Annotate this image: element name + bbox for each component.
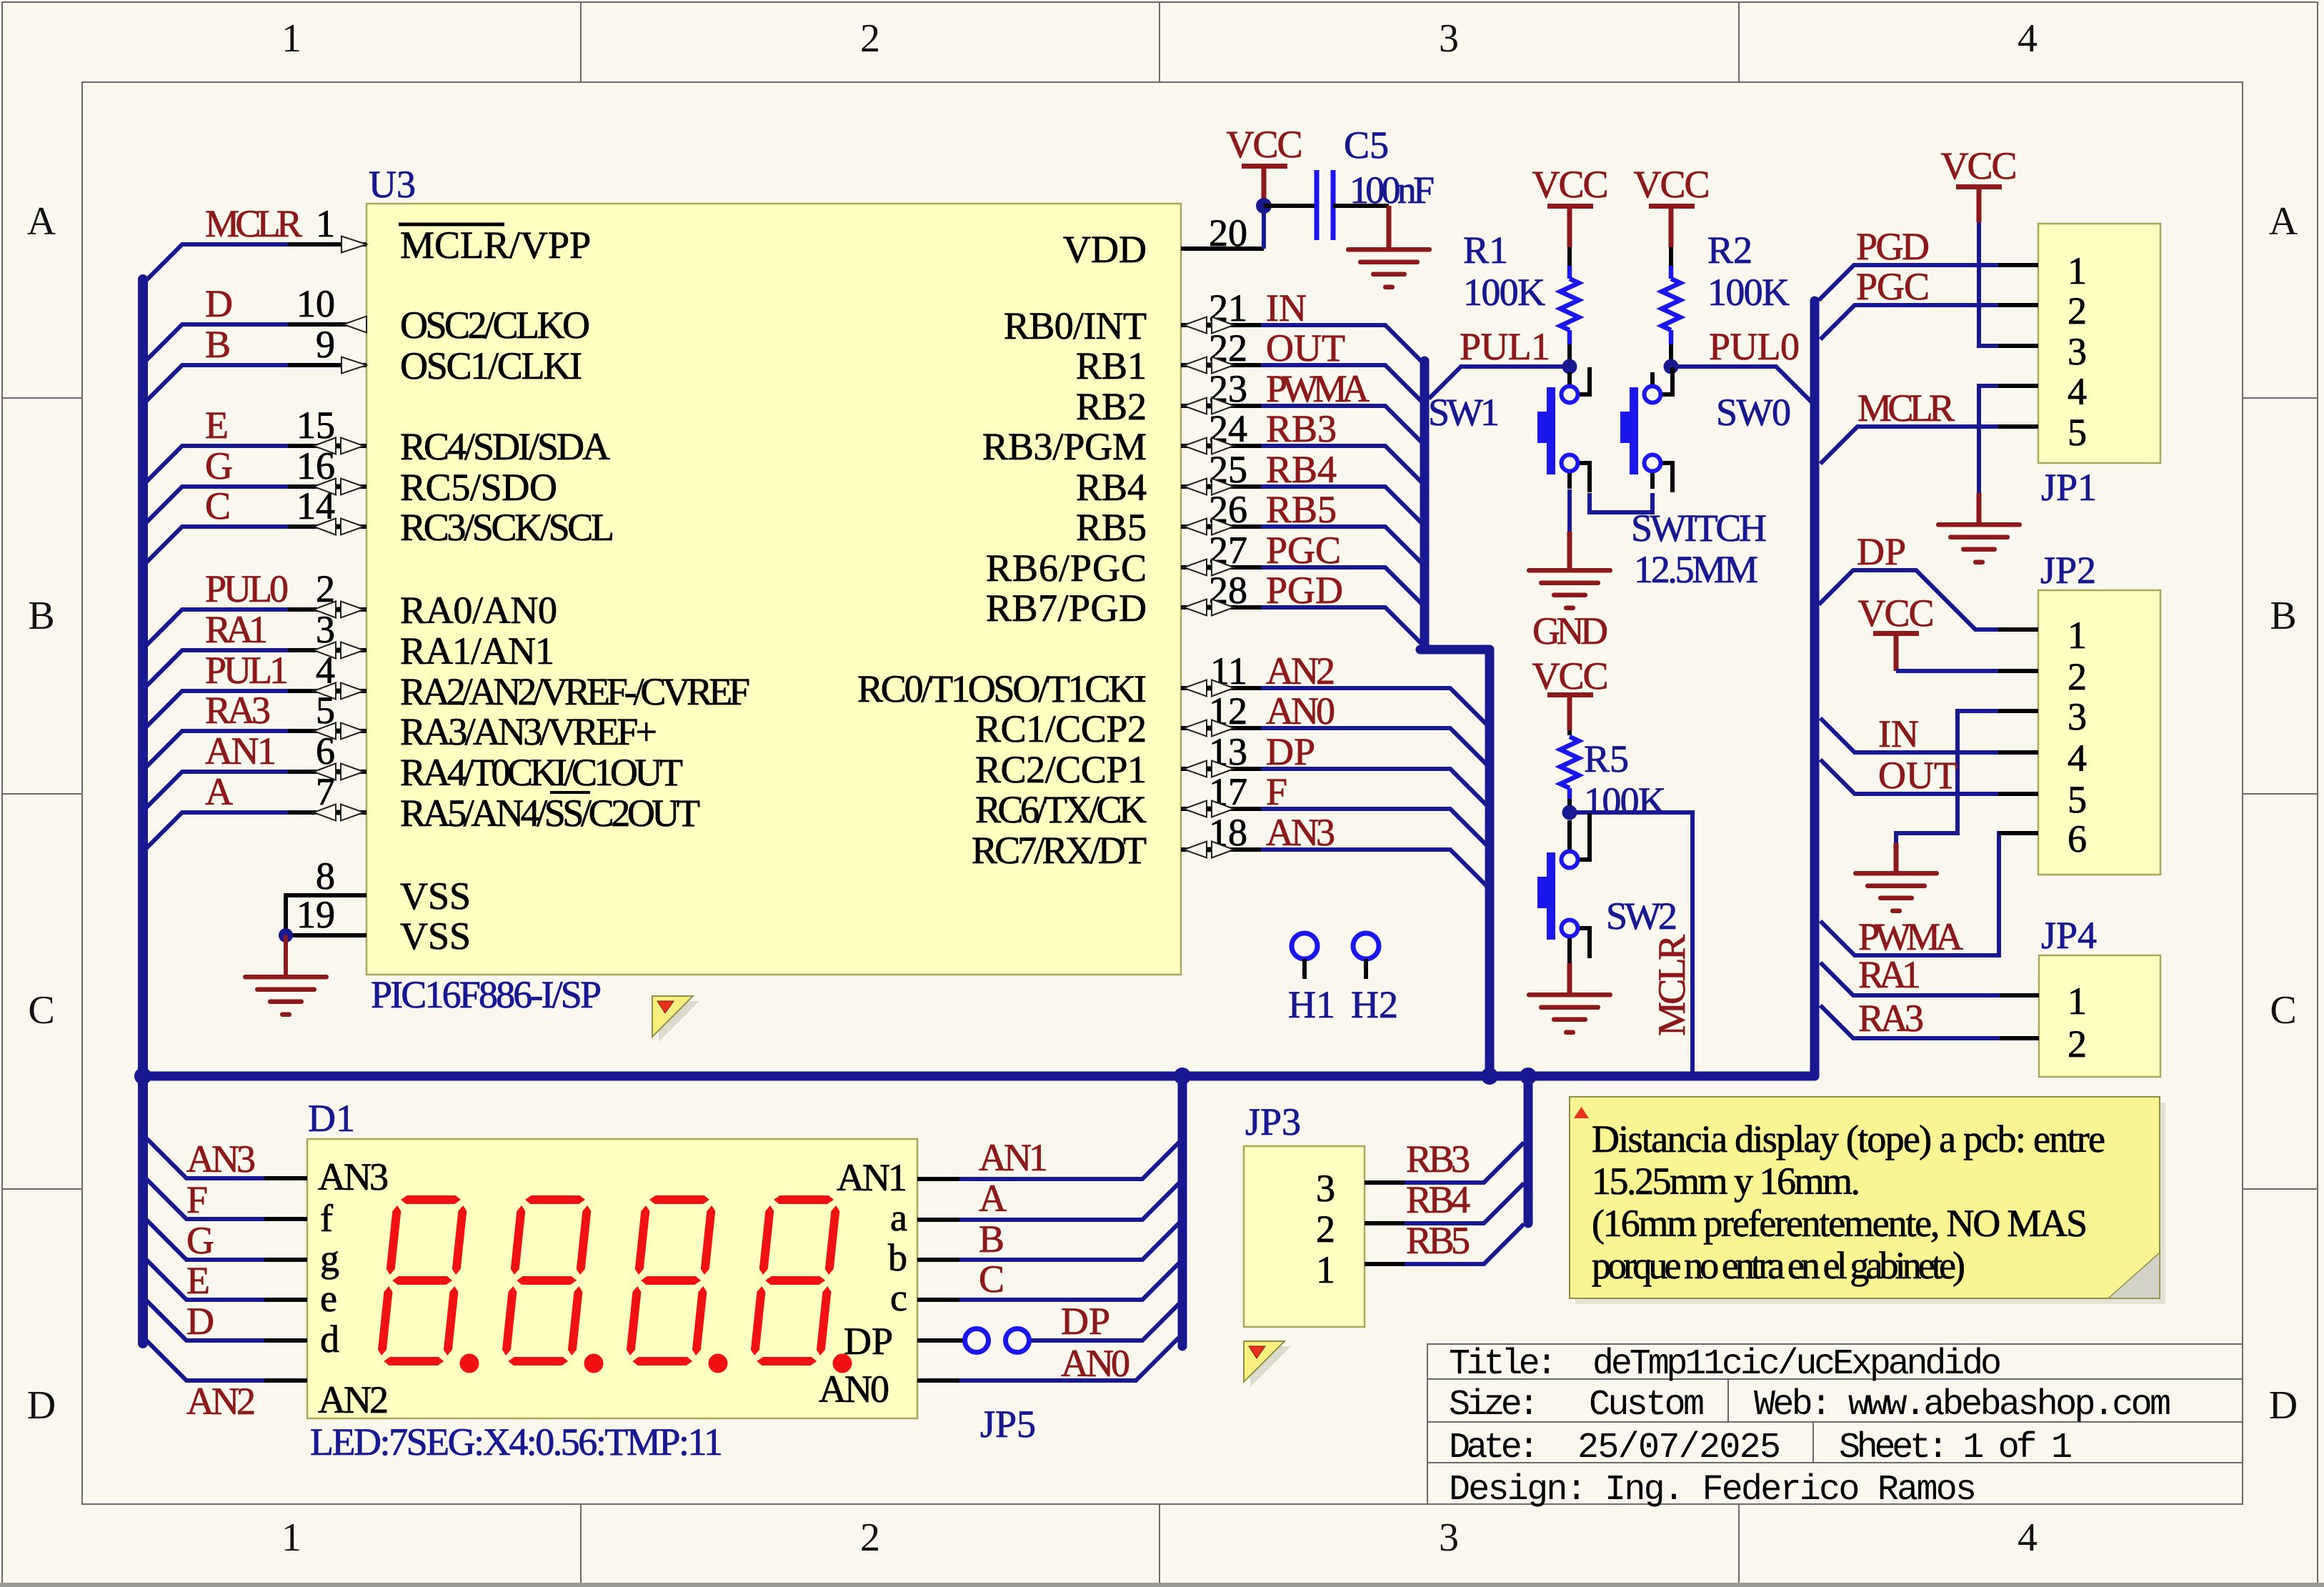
wire RB5 pin 26	[1181, 527, 1423, 564]
wire A from D1 to bus	[917, 1181, 1181, 1220]
wire RB3 to JP3 pin 3	[1365, 1143, 1524, 1183]
svg-text:OUT: OUT	[1878, 754, 1958, 797]
D1 right pin names	[819, 1156, 907, 1411]
svg-text:SW0: SW0	[1716, 391, 1791, 434]
connector JP3 body	[1244, 1146, 1365, 1327]
svg-text:RA4/T0CKI/C1OUT: RA4/T0CKI/C1OUT	[400, 751, 683, 794]
hole H1	[1292, 933, 1317, 959]
wire SW2 to ground	[1567, 963, 1572, 995]
wire AN0 from D1 to bus	[917, 1338, 1179, 1380]
svg-text:F: F	[186, 1178, 208, 1221]
svg-text:Date:: Date:	[1449, 1428, 1540, 1468]
svg-text:R1: R1	[1463, 229, 1508, 272]
wire D to D1	[146, 1300, 307, 1340]
svg-text:2: 2	[2068, 289, 2087, 332]
svg-text:D: D	[2269, 1383, 2298, 1428]
svg-text:1: 1	[2068, 249, 2087, 292]
svg-text:RB6/PGC: RB6/PGC	[986, 547, 1147, 589]
wire AN1 to pin 6	[146, 772, 366, 807]
junction middle bus / bottom bus	[1481, 1068, 1498, 1085]
svg-text:4: 4	[2068, 737, 2087, 780]
svg-text:PUL1: PUL1	[1460, 325, 1550, 368]
svg-text:b: b	[888, 1236, 907, 1279]
wire MCLR to JP1 pin 5	[1820, 427, 2038, 464]
7-segment digit 2	[501, 1195, 593, 1365]
wire PGC pin 27	[1181, 567, 1423, 605]
right vertical bus	[1810, 301, 1820, 1076]
svg-text:JP4: JP4	[2041, 914, 2097, 957]
svg-text:A: A	[979, 1177, 1007, 1220]
svg-text:DP: DP	[1857, 530, 1906, 573]
wire C from D1 to bus	[917, 1261, 1181, 1300]
svg-text:RA2/AN2/VREF-/CVREF: RA2/AN2/VREF-/CVREF	[400, 670, 750, 713]
svg-text:Web: www.abebashop.com: Web: www.abebashop.com	[1754, 1385, 2171, 1426]
IC U3 PIC16F886 body	[366, 204, 1181, 975]
svg-text:VCC: VCC	[1532, 163, 1609, 206]
middle vertical bus (pins 21-28)	[1420, 361, 1490, 1076]
ground symbol at JP2	[1853, 871, 1939, 913]
svg-text:PUL0: PUL0	[205, 567, 289, 610]
svg-text:SWITCH: SWITCH	[1631, 507, 1767, 549]
JP2 pin numbers	[2068, 614, 2087, 860]
wire PWMA to JP2 pin 6	[1820, 833, 2038, 955]
decimal point 1	[460, 1354, 479, 1373]
svg-text:C: C	[205, 484, 231, 527]
wire C5 left lead	[1264, 204, 1317, 208]
svg-text:RA3: RA3	[205, 689, 271, 732]
connector JP2 body	[2038, 590, 2160, 875]
svg-text:VCC: VCC	[1858, 592, 1935, 635]
svg-text:10: 10	[296, 282, 335, 325]
overline SS (pin7 name)	[550, 791, 590, 794]
svg-text:3: 3	[2068, 330, 2087, 373]
svg-text:C: C	[28, 988, 54, 1033]
wire F pin 17	[1181, 809, 1488, 847]
wire PWMA pin 23	[1181, 406, 1423, 444]
svg-text:H1: H1	[1288, 983, 1335, 1026]
svg-text:OSC2/CLKO: OSC2/CLKO	[400, 304, 590, 347]
wire DP pin 13	[1181, 769, 1488, 807]
svg-text:RB4: RB4	[1406, 1178, 1470, 1221]
svg-text:RC6/TX/CK: RC6/TX/CK	[975, 788, 1147, 831]
svg-text:3: 3	[1316, 1167, 1335, 1210]
svg-text:RB5: RB5	[1076, 506, 1147, 549]
wire GND to JP2 pin 3	[1896, 711, 2038, 843]
svg-text:VSS: VSS	[400, 875, 471, 917]
7-segment digit 4	[749, 1195, 842, 1365]
svg-text:AN1: AN1	[205, 730, 276, 772]
svg-text:E: E	[205, 404, 229, 447]
svg-text:5: 5	[2068, 778, 2087, 821]
svg-text:VCC: VCC	[1532, 655, 1609, 697]
svg-text:RA1/AN1: RA1/AN1	[400, 630, 554, 672]
wire RA3 to pin 5	[146, 731, 366, 767]
svg-text:a: a	[890, 1196, 907, 1239]
svg-text:f: f	[320, 1197, 333, 1240]
svg-text:100K: 100K	[1707, 271, 1790, 314]
svg-text:RC5/SDO: RC5/SDO	[400, 466, 557, 509]
svg-text:C: C	[979, 1258, 1004, 1300]
svg-text:12.5MM: 12.5MM	[1634, 548, 1758, 591]
svg-text:AN1: AN1	[979, 1136, 1048, 1179]
right net labels (IC side)	[1266, 287, 1370, 854]
wire SW1 to ground	[1567, 489, 1572, 532]
display area vertical bus	[1178, 1076, 1187, 1346]
left net labels	[205, 202, 302, 813]
wire VCC to JP2 pin 2	[1894, 634, 1899, 671]
ground symbol at VSS	[243, 975, 329, 1017]
wire AN2 to D1	[146, 1340, 307, 1380]
junction dot left bus / bottom bus	[134, 1068, 151, 1085]
wire VDD pin 20 to VCC/C5	[1181, 247, 1264, 251]
jumper JP5 pads	[965, 1329, 989, 1353]
svg-text:DP: DP	[844, 1320, 893, 1363]
decimal point 2	[584, 1354, 604, 1373]
wire F to D1	[146, 1179, 307, 1219]
ground symbol at SW2	[1527, 993, 1612, 1035]
svg-text:15.25mm y 16mm.: 15.25mm y 16mm.	[1592, 1160, 1860, 1203]
svg-text:RC2/CCP1: RC2/CCP1	[975, 748, 1147, 791]
svg-text:porque no entra en el gabinete: porque no entra en el gabinete)	[1592, 1244, 1965, 1287]
wire link SW1 to SW0	[1590, 493, 1652, 512]
note marker (below U3)	[652, 996, 699, 1042]
connector JP1 body	[2038, 224, 2160, 463]
ground symbol at JP1	[1936, 522, 2022, 564]
svg-text:MCLR: MCLR	[205, 202, 302, 245]
svg-text:RA1: RA1	[205, 608, 268, 651]
svg-text:RA5/AN4/SS/C2OUT: RA5/AN4/SS/C2OUT	[400, 792, 700, 835]
wire OUT to JP2 pin 5	[1820, 760, 2038, 794]
wire D to pin 10	[146, 324, 366, 360]
svg-text:PUL0: PUL0	[1709, 325, 1800, 368]
svg-text:R5: R5	[1584, 737, 1629, 780]
wire RA3 to JP4 pin 2	[1820, 1005, 2039, 1038]
wire VSS pins 8,19	[286, 895, 366, 935]
resistor R2 100K	[1669, 207, 1674, 247]
svg-text:Title:: Title:	[1449, 1344, 1557, 1385]
wire C5 right lead to ground	[1333, 204, 1389, 208]
svg-text:e: e	[320, 1277, 337, 1320]
svg-text:B: B	[2270, 594, 2296, 638]
svg-text:PIC16F886-I/SP: PIC16F886-I/SP	[371, 973, 602, 1016]
svg-text:RB1: RB1	[1076, 344, 1147, 387]
7-segment digit 1	[376, 1195, 469, 1365]
U3 left pin names	[400, 224, 750, 957]
wire VSS to ground	[284, 935, 288, 977]
svg-text:5: 5	[2068, 411, 2087, 454]
svg-text:A: A	[27, 199, 56, 244]
svg-text:H2: H2	[1351, 983, 1398, 1026]
node PUL0 junction	[1664, 359, 1679, 374]
svg-text:4: 4	[2068, 370, 2087, 413]
power symbol VCC (C5)	[1242, 164, 1287, 169]
U3 right pin numbers	[1209, 212, 1247, 854]
svg-text:25/07/2025: 25/07/2025	[1577, 1428, 1781, 1468]
wire B to pin 9	[146, 365, 366, 401]
capacitor C5	[1317, 170, 1333, 240]
svg-text:RB2: RB2	[1076, 385, 1147, 428]
svg-text:B: B	[205, 323, 231, 366]
junction JP3 bus / bottom bus	[1520, 1068, 1537, 1085]
svg-text:VCC: VCC	[1941, 144, 2018, 187]
wire PUL1 to pin 4	[146, 691, 366, 727]
wire RB5 to JP3 pin 1	[1365, 1224, 1524, 1264]
wire RA1 to pin 3	[146, 650, 366, 686]
svg-text:AN1: AN1	[837, 1156, 907, 1199]
7-segment digit 3	[625, 1195, 717, 1365]
wire AN3 pin 18	[1181, 850, 1488, 887]
wire PUL0 to pin 2	[146, 610, 366, 645]
svg-text:OSC1/CLKI: OSC1/CLKI	[400, 344, 582, 387]
svg-text:RB5: RB5	[1406, 1219, 1470, 1262]
svg-text:RA3: RA3	[1858, 997, 1924, 1040]
svg-text:1: 1	[1316, 1248, 1335, 1291]
svg-text:d: d	[320, 1318, 339, 1360]
svg-text:B: B	[979, 1218, 1004, 1260]
svg-text:RB3: RB3	[1406, 1138, 1470, 1180]
bottom horizontal bus	[143, 1072, 1815, 1081]
U3 left pin numbers	[296, 202, 335, 936]
wire OUT pin 22	[1181, 365, 1423, 403]
D1 left pin names	[318, 1155, 389, 1421]
svg-text:2: 2	[860, 16, 880, 61]
svg-text:1: 1	[2068, 614, 2087, 657]
wire RB3 pin 24	[1181, 446, 1423, 484]
svg-text:RB0/INT: RB0/INT	[1004, 304, 1147, 347]
wire E to D1	[146, 1260, 307, 1300]
svg-text:RB3/PGM: RB3/PGM	[982, 425, 1147, 468]
svg-text:AN3: AN3	[186, 1138, 256, 1180]
svg-text:RA3/AN3/VREF+: RA3/AN3/VREF+	[400, 710, 657, 753]
svg-text:A: A	[205, 770, 233, 813]
svg-text:MCLR/VPP: MCLR/VPP	[400, 224, 591, 267]
svg-text:2: 2	[1316, 1208, 1335, 1250]
sticky note	[1570, 1097, 2165, 1304]
decimal point 3	[709, 1354, 728, 1373]
display D1 body	[307, 1139, 917, 1418]
wire AN1 from D1 to bus	[917, 1140, 1181, 1179]
node PUL1 junction	[1562, 359, 1577, 374]
svg-text:Custom: Custom	[1589, 1385, 1705, 1426]
wire PUL1	[1429, 367, 1570, 399]
wire G to pin 16	[146, 487, 366, 522]
switch SW2	[1537, 813, 1590, 963]
svg-text:Design: Ing. Federico Ramos: Design: Ing. Federico Ramos	[1449, 1470, 1977, 1511]
wire IN pin 21	[1181, 325, 1423, 363]
junction VSS	[279, 928, 293, 942]
svg-text:2: 2	[860, 1516, 880, 1560]
svg-text:Size:: Size:	[1449, 1385, 1540, 1426]
svg-text:MCLR: MCLR	[1857, 387, 1955, 429]
svg-text:SW1: SW1	[1428, 391, 1500, 434]
svg-text:D1: D1	[308, 1097, 355, 1140]
svg-text:RC4/SDI/SDA: RC4/SDI/SDA	[400, 425, 610, 468]
note marker (below JP3)	[1244, 1341, 1291, 1387]
svg-text:GND: GND	[1532, 610, 1608, 652]
svg-text:g: g	[320, 1237, 339, 1280]
svg-text:2: 2	[2068, 655, 2087, 698]
svg-text:9: 9	[316, 323, 335, 366]
wire G to D1	[146, 1220, 307, 1260]
svg-text:3: 3	[1439, 16, 1459, 61]
wire AN0 pin 12	[1181, 728, 1488, 766]
svg-text:PUL1: PUL1	[205, 649, 289, 692]
JP4 pin numbers	[2068, 980, 2087, 1065]
svg-text:B: B	[28, 594, 54, 638]
svg-text:VCC: VCC	[1227, 123, 1303, 166]
svg-text:AN2: AN2	[186, 1380, 256, 1423]
wire RA1 to JP4 pin 1	[1820, 962, 2039, 995]
svg-text:3: 3	[2068, 695, 2087, 738]
svg-text:4: 4	[2018, 16, 2038, 61]
wire DP to JP2 pin 1	[1819, 570, 2038, 630]
svg-text:4: 4	[2018, 1516, 2038, 1560]
svg-text:JP2: JP2	[2040, 549, 2096, 592]
U3 right pin names	[857, 228, 1147, 872]
svg-text:VCC: VCC	[1634, 163, 1710, 206]
JP3 pin numbers	[1316, 1167, 1335, 1291]
svg-text:LED:7SEG:X4:0.56:TMP:11: LED:7SEG:X4:0.56:TMP:11	[310, 1421, 723, 1463]
svg-text:1: 1	[281, 1516, 301, 1560]
svg-text:C5: C5	[1344, 124, 1389, 166]
svg-text:RC3/SCK/SCL: RC3/SCK/SCL	[400, 506, 614, 549]
ground symbol GND (switches)	[1527, 568, 1612, 610]
svg-text:E: E	[186, 1259, 210, 1302]
wire MCLR to pin 1	[146, 244, 366, 280]
wire RB4 pin 25	[1181, 487, 1423, 524]
title block	[1427, 1344, 2243, 1504]
svg-text:1: 1	[316, 202, 335, 245]
left vertical bus	[138, 279, 148, 1343]
left display net labels	[186, 1138, 256, 1423]
switch SW0	[1620, 367, 1672, 492]
wire MCLR from SW2 to bottom bus	[1570, 812, 1692, 1076]
resistor R1 100K	[1567, 207, 1572, 247]
svg-text:PGD: PGD	[1856, 225, 1930, 268]
svg-text:RC7/RX/DT: RC7/RX/DT	[972, 829, 1147, 872]
right display net labels	[979, 1136, 1130, 1385]
resistor R5 100K	[1567, 695, 1572, 730]
wire AN2 pin 11	[1181, 688, 1488, 726]
svg-text:AN3: AN3	[318, 1155, 389, 1198]
svg-text:RA0/AN0: RA0/AN0	[400, 589, 557, 632]
wire AN3 to D1	[146, 1138, 307, 1178]
wire VCC to JP1 pin 3	[1977, 187, 1982, 222]
svg-text:6: 6	[2068, 817, 2087, 860]
svg-text:19: 19	[296, 893, 335, 936]
svg-text:AN2: AN2	[318, 1378, 389, 1421]
svg-text:RA1: RA1	[1858, 953, 1921, 996]
svg-text:(16mm preferentemente, NO MAS: (16mm preferentemente, NO MAS	[1592, 1202, 2088, 1245]
svg-text:Sheet: 1 of 1: Sheet: 1 of 1	[1839, 1428, 2073, 1468]
svg-text:MCLR: MCLR	[1650, 935, 1693, 1036]
svg-text:1: 1	[281, 16, 301, 61]
svg-text:G: G	[205, 444, 233, 487]
wire PGD pin 28	[1181, 607, 1423, 645]
wire VCC stem above C5	[1262, 164, 1267, 202]
wire IN to JP2 pin 4	[1820, 718, 2038, 752]
wire A to pin 7	[146, 812, 366, 848]
svg-text:G: G	[186, 1219, 214, 1262]
svg-text:3: 3	[1439, 1516, 1459, 1560]
svg-text:JP1: JP1	[2041, 466, 2097, 509]
svg-text:8: 8	[316, 855, 335, 897]
svg-text:D: D	[205, 282, 233, 325]
hole H2	[1353, 933, 1379, 959]
junction C5 node	[1256, 198, 1272, 214]
switch SW1	[1537, 367, 1590, 492]
svg-text:U3: U3	[369, 163, 416, 206]
wire PGC to JP1 pin 2	[1820, 305, 2038, 339]
svg-text:RB7/PGD: RB7/PGD	[986, 587, 1147, 630]
JP1 pin numbers	[2068, 249, 2087, 454]
svg-text:VDD: VDD	[1063, 228, 1147, 271]
wire PUL0 to right bus	[1671, 367, 1815, 405]
svg-text:PGC: PGC	[1856, 265, 1930, 308]
svg-text:1: 1	[2068, 980, 2087, 1023]
svg-text:IN: IN	[1878, 712, 1919, 755]
wire B from D1 to bus	[917, 1221, 1181, 1260]
svg-text:DP: DP	[1061, 1300, 1110, 1343]
junction display bus / bottom bus	[1174, 1068, 1191, 1085]
svg-text:PWMA: PWMA	[1858, 915, 1963, 958]
wire RB4 to JP3 pin 2	[1365, 1183, 1524, 1223]
wire C to pin 14	[146, 527, 366, 562]
wire GND to JP1 pin 4	[1979, 386, 2038, 493]
overline MCLR (pin1 name)	[399, 223, 504, 227]
svg-text:RC0/T1OSO/T1CKI: RC0/T1OSO/T1CKI	[857, 667, 1147, 710]
svg-text:D: D	[27, 1383, 56, 1428]
svg-text:D: D	[186, 1300, 214, 1343]
svg-text:JP5: JP5	[980, 1403, 1036, 1446]
wire DP from D1 through JP5 to bus	[917, 1302, 1181, 1340]
JP3 area vertical bus	[1524, 1076, 1533, 1223]
svg-text:100K: 100K	[1584, 780, 1666, 822]
svg-text:JP3: JP3	[1245, 1100, 1301, 1143]
node R5/SW2 junction	[1562, 805, 1577, 820]
svg-text:RC1/CCP2: RC1/CCP2	[975, 707, 1147, 750]
svg-text:R2: R2	[1707, 229, 1752, 272]
connector JP4 body	[2039, 955, 2160, 1077]
svg-text:c: c	[890, 1276, 907, 1319]
wire PGD to JP1 pin 1	[1819, 265, 2038, 300]
svg-text:SW2: SW2	[1606, 895, 1677, 937]
title block text	[1449, 1344, 2171, 1511]
decimal point 4	[833, 1354, 852, 1373]
svg-text:deTmp11cic/ucExpandido: deTmp11cic/ucExpandido	[1592, 1344, 2002, 1385]
svg-text:VSS: VSS	[400, 915, 471, 957]
svg-text:C: C	[2270, 988, 2296, 1033]
svg-text:RB4: RB4	[1076, 466, 1147, 509]
svg-text:A: A	[2269, 199, 2298, 244]
svg-text:100K: 100K	[1463, 271, 1545, 314]
wire E to pin 15	[146, 446, 366, 482]
svg-text:AN0: AN0	[819, 1368, 889, 1411]
ground symbol at C5	[1346, 247, 1432, 289]
svg-text:2: 2	[2068, 1023, 2087, 1065]
svg-text:Distancia display (tope) a pcb: Distancia display (tope) a pcb: entre	[1592, 1118, 2105, 1160]
